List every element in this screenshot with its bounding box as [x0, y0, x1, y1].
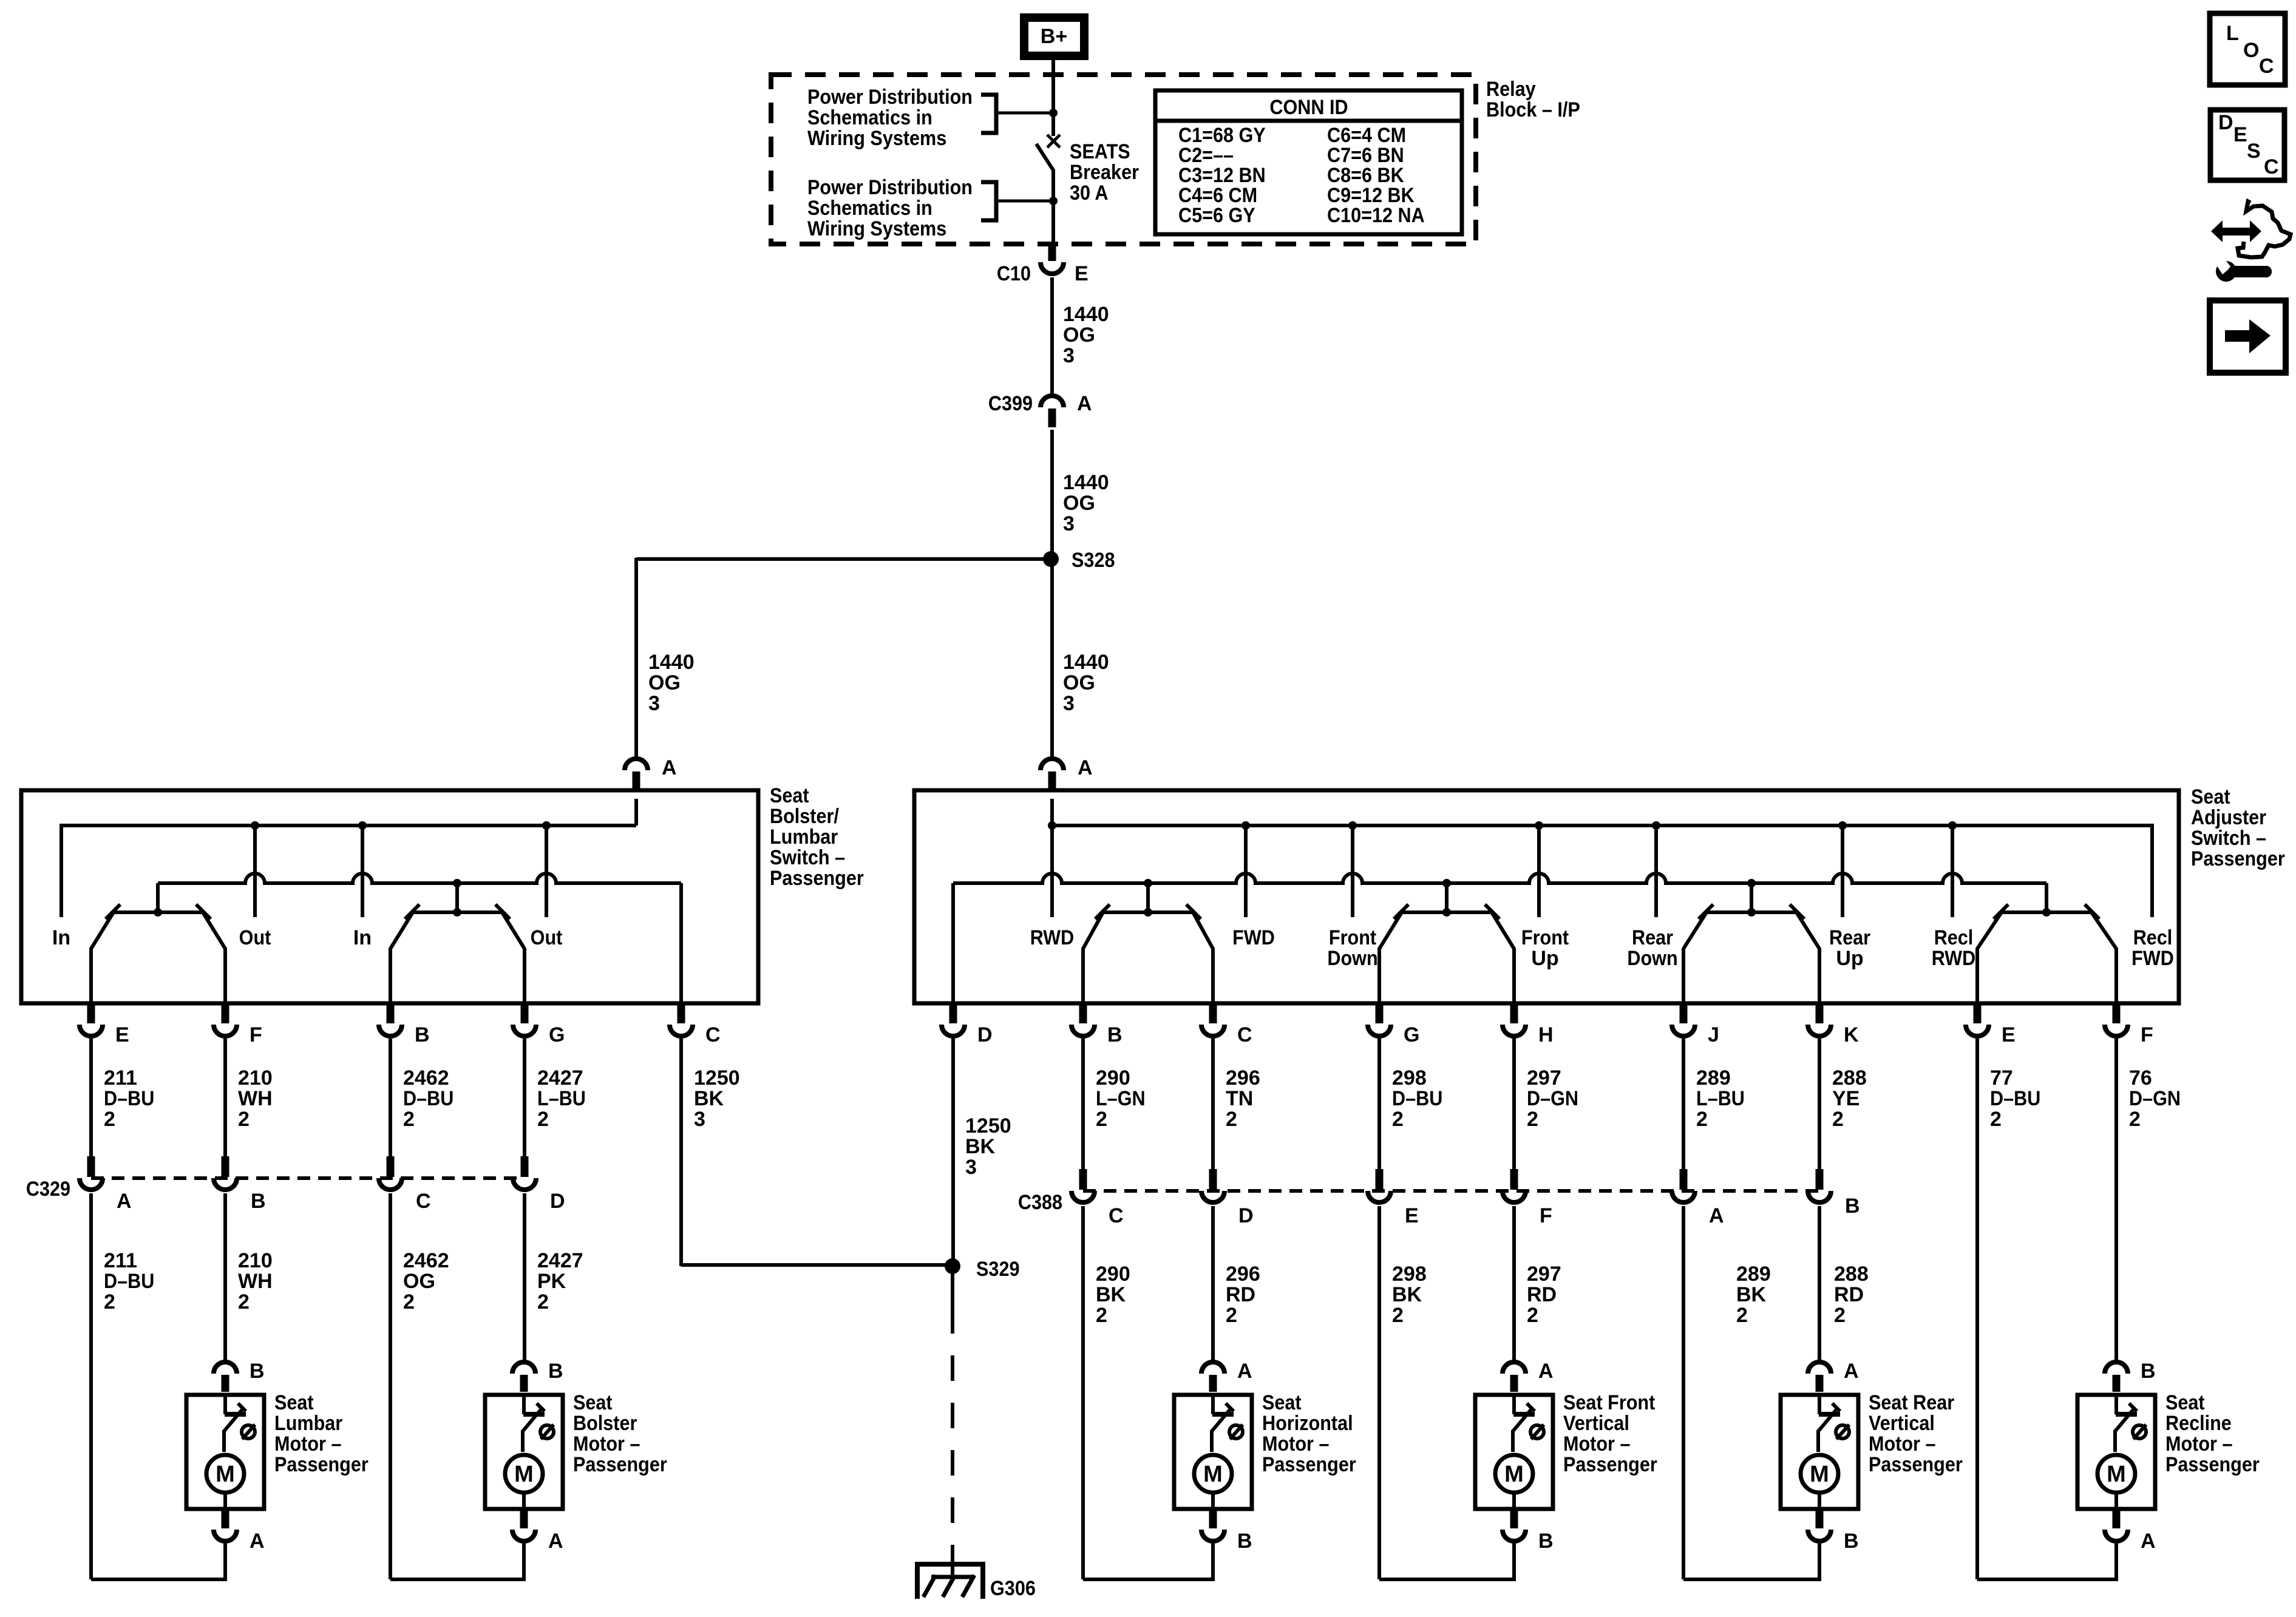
svg-text:2: 2	[1696, 1108, 1708, 1131]
connector motor pin B (seat rear vertical motor)	[1808, 1509, 1859, 1553]
junction dot upper branch	[1049, 109, 1058, 117]
svg-text:B: B	[1845, 1195, 1860, 1218]
connector motor pin A (seat lumbar motor)	[214, 1509, 265, 1553]
circuit breaker SEATS 30A	[1036, 135, 1060, 245]
svg-text:290: 290	[1096, 1263, 1130, 1286]
svg-text:OG: OG	[648, 671, 681, 694]
svg-text:RWD: RWD	[1030, 926, 1075, 949]
svg-text:Lumbar: Lumbar	[770, 825, 838, 849]
wire 288 YE (pin K)	[1818, 1039, 1821, 1170]
wire 297 D-GN (pin H)	[1512, 1039, 1516, 1170]
svg-text:G306: G306	[990, 1577, 1036, 1600]
svg-text:Motor –: Motor –	[573, 1432, 640, 1456]
wire contact Recl RWD	[1951, 825, 1954, 917]
svg-text:A: A	[250, 1530, 265, 1553]
contact tick left (lumbar)	[405, 904, 419, 919]
svg-text:210: 210	[238, 1066, 273, 1090]
label 296 RD 2	[1226, 1263, 1260, 1327]
seat lumbar motor thermal breaker	[224, 1395, 246, 1452]
svg-text:SEATS: SEATS	[1070, 140, 1130, 163]
svg-text:Lumbar: Lumbar	[274, 1412, 342, 1435]
switch blade right (recline)	[2091, 912, 2116, 1005]
svg-text:RD: RD	[1527, 1283, 1557, 1306]
label Recl FWD	[2131, 926, 2174, 970]
label 77 D-BU 2	[1990, 1066, 2040, 1131]
wire contact Front Up	[1537, 825, 1541, 917]
svg-text:Down: Down	[1327, 947, 1377, 970]
svg-text:L–BU: L–BU	[537, 1087, 586, 1110]
wire 2462 D-BU (pin B)	[389, 1039, 392, 1158]
svg-text:PK: PK	[537, 1270, 566, 1293]
label Power Distribution Schematics in Wiring Systems (lower)	[807, 176, 973, 240]
svg-text:M: M	[216, 1462, 235, 1487]
svg-text:D–GN: D–GN	[1527, 1087, 1578, 1110]
label SEATS Breaker 30 A	[1070, 140, 1139, 205]
connector C329 pin D	[513, 1156, 565, 1213]
svg-text:Wiring Systems: Wiring Systems	[807, 217, 946, 240]
junction dot bus1 In(2)	[358, 821, 367, 830]
switch blade bar (horizontal)	[1103, 879, 1193, 917]
switch blade to pin F	[203, 912, 225, 1005]
label 298 BK 2	[1392, 1263, 1427, 1327]
label 210 WH 2 (lower)	[238, 1249, 273, 1314]
wire 1440 OG 3 (C10 to C399)	[1050, 277, 1054, 396]
contact tick right (front vertical)	[1485, 904, 1500, 919]
contact tick right (recline)	[2085, 904, 2099, 919]
svg-text:Seat: Seat	[1262, 1391, 1302, 1414]
svg-text:YE: YE	[1832, 1087, 1860, 1110]
junction dot lower branch	[1049, 197, 1058, 205]
wire feed into right box	[1050, 799, 1054, 825]
svg-text:B: B	[1538, 1530, 1554, 1553]
label 210 WH 2	[238, 1066, 273, 1131]
junction dot bus1 Recl RWD	[1948, 821, 1957, 830]
svg-text:B: B	[250, 1360, 265, 1383]
svg-text:D–BU: D–BU	[403, 1087, 453, 1110]
seat rear vertical motor box	[1781, 1395, 1858, 1509]
switch blade bar (rear vertical)	[1707, 879, 1796, 917]
connector pin K (right box)	[1808, 1005, 1859, 1046]
label 1440 OG 3 (second)	[1063, 471, 1109, 535]
wire relay block feed	[1051, 76, 1055, 136]
connector C388 pin A	[1672, 1169, 1724, 1227]
connector C10 pin E	[1041, 245, 1064, 274]
svg-text:296: 296	[1226, 1066, 1260, 1090]
svg-text:C: C	[1109, 1204, 1124, 1227]
svg-text:M: M	[1203, 1462, 1223, 1487]
svg-text:C: C	[2264, 155, 2279, 178]
seat recline motor box	[2077, 1395, 2155, 1509]
svg-text:D–BU: D–BU	[1990, 1087, 2040, 1110]
svg-text:Bolster/: Bolster/	[770, 805, 839, 828]
svg-text:2: 2	[2129, 1108, 2141, 1131]
svg-text:3: 3	[1063, 692, 1075, 715]
seat recline motor label	[2165, 1391, 2260, 1476]
wire 1250 BK (pin D)	[951, 1039, 955, 1266]
seat horizontal motor thermal symbol	[1229, 1425, 1243, 1439]
wire ground bus to pin D	[951, 883, 955, 1005]
svg-text:E: E	[1405, 1204, 1419, 1227]
svg-text:M: M	[1810, 1462, 1829, 1487]
svg-text:Power Distribution: Power Distribution	[807, 176, 973, 199]
svg-text:Passenger: Passenger	[274, 1453, 369, 1476]
svg-text:Horizontal: Horizontal	[1262, 1412, 1353, 1435]
svg-text:2: 2	[1096, 1304, 1107, 1327]
svg-text:2: 2	[403, 1108, 415, 1131]
svg-text:B: B	[2141, 1360, 2156, 1383]
wire 297 RD (C388 F)	[1512, 1206, 1516, 1362]
wire S328 to left branch	[636, 557, 1051, 561]
svg-text:Seat: Seat	[770, 784, 809, 807]
switch blade bar (bolster)	[114, 883, 203, 917]
svg-text:C10=12 NA: C10=12 NA	[1327, 204, 1425, 227]
left box feed bus	[61, 825, 636, 917]
connector C329 pin A	[80, 1156, 132, 1213]
wire 1250 BK to S329	[681, 1263, 953, 1267]
svg-text:2: 2	[537, 1108, 549, 1131]
label S328	[1072, 549, 1115, 572]
connector C388 pin F	[1503, 1169, 1552, 1227]
seat lumbar motor motor M	[206, 1455, 244, 1509]
svg-text:A: A	[1844, 1360, 1859, 1383]
label C388	[1018, 1191, 1062, 1214]
wire motor loop front vertical	[1379, 1544, 1514, 1579]
junction dot bus1 Front Down	[1348, 821, 1357, 830]
svg-text:E: E	[2002, 1023, 2016, 1046]
svg-text:H: H	[1538, 1023, 1554, 1046]
svg-text:B+: B+	[1041, 25, 1067, 48]
label FWD	[1232, 926, 1275, 949]
connector motor pin A (seat front vertical motor)	[1503, 1360, 1554, 1392]
svg-text:E: E	[115, 1023, 129, 1046]
svg-text:2: 2	[1226, 1304, 1237, 1327]
contact tick left (recline)	[1994, 904, 2008, 919]
svg-text:In: In	[52, 926, 70, 949]
power feed B+	[1020, 13, 1089, 60]
seat bolster motor label	[573, 1391, 667, 1476]
icon wrench	[2214, 255, 2272, 282]
connector motor pin B (seat front vertical motor)	[1503, 1509, 1554, 1553]
svg-text:1440: 1440	[1063, 651, 1109, 674]
connector pin F (left box)	[214, 1005, 262, 1046]
svg-text:Recl: Recl	[1934, 926, 1974, 949]
svg-text:C5=6 GY: C5=6 GY	[1178, 204, 1255, 227]
wire motor loop lumbar	[91, 1544, 225, 1579]
label Seat Adjuster Switch - Passenger	[2191, 785, 2285, 870]
connector C388 pin D	[1201, 1169, 1254, 1227]
switch blade left (front vertical)	[1379, 912, 1402, 1005]
svg-text:D–BU: D–BU	[104, 1270, 154, 1293]
wire contact Rear Down	[1654, 825, 1658, 917]
wire 298 D-BU (pin G)	[1377, 1039, 1381, 1170]
svg-text:G: G	[549, 1023, 565, 1046]
wire 296 TN (pin C)	[1211, 1039, 1215, 1170]
svg-text:B: B	[251, 1190, 266, 1213]
connector C388 pin B	[1808, 1169, 1860, 1218]
svg-text:2: 2	[1226, 1108, 1237, 1131]
label 2462 OG 2	[403, 1249, 449, 1314]
label C399	[988, 392, 1033, 415]
label Relay Block - I/P	[1486, 78, 1580, 121]
svg-text:Block – I/P: Block – I/P	[1486, 98, 1580, 121]
svg-text:F: F	[1540, 1204, 1552, 1227]
switch blade to pin B	[390, 912, 413, 1005]
label RWD	[1030, 926, 1075, 949]
svg-text:RD: RD	[1834, 1283, 1864, 1306]
svg-text:A: A	[117, 1190, 132, 1213]
label Front Up	[1521, 926, 1569, 970]
svg-text:L–GN: L–GN	[1096, 1087, 1146, 1110]
svg-text:In: In	[353, 926, 372, 949]
seat bolster motor box	[485, 1395, 563, 1509]
connector pin F (right box)	[2105, 1005, 2153, 1046]
svg-text:BK: BK	[694, 1087, 724, 1110]
label A (left switch feed)	[662, 756, 677, 779]
connector pin G (right box)	[1368, 1005, 1419, 1046]
wire contact Out(2)	[545, 825, 548, 917]
connector pin B (right box)	[1072, 1005, 1123, 1046]
svg-text:C329: C329	[26, 1178, 70, 1201]
label 2427 L-BU 2	[537, 1066, 586, 1131]
seat horizontal motor label	[1262, 1391, 1356, 1476]
wire B+ to relay block	[1051, 60, 1055, 76]
svg-text:2462: 2462	[403, 1066, 449, 1090]
seat adjuster switch box	[914, 790, 2179, 1003]
svg-text:S329: S329	[976, 1258, 1020, 1281]
svg-text:C: C	[416, 1190, 431, 1213]
svg-text:Seat: Seat	[274, 1391, 314, 1414]
svg-text:J: J	[1708, 1023, 1719, 1046]
switch blade to pin E	[91, 912, 114, 1005]
svg-text:B: B	[1844, 1530, 1859, 1553]
svg-text:2462: 2462	[403, 1249, 449, 1272]
svg-text:289: 289	[1696, 1066, 1731, 1090]
wire 210 WH (C329 B)	[223, 1193, 227, 1362]
contact tick left (front vertical)	[1394, 904, 1408, 919]
svg-text:Seat: Seat	[2191, 785, 2230, 808]
switch blade left (recline)	[1977, 912, 2002, 1005]
svg-text:297: 297	[1527, 1066, 1561, 1090]
svg-text:288: 288	[1834, 1263, 1869, 1286]
label 211 D-BU 2	[104, 1066, 154, 1131]
svg-text:Switch –: Switch –	[770, 846, 845, 869]
svg-text:Wiring Systems: Wiring Systems	[807, 127, 946, 150]
switch blade right (front vertical)	[1492, 912, 1514, 1005]
switch blade right (rear vertical)	[1796, 912, 1819, 1005]
label C10	[997, 262, 1031, 285]
label In (2)	[353, 926, 372, 949]
svg-text:OG: OG	[403, 1270, 435, 1293]
wire feed into left box	[634, 799, 638, 825]
wire 290 BK (C388 C)	[1081, 1206, 1085, 1579]
svg-text:C388: C388	[1018, 1191, 1062, 1214]
svg-text:E: E	[2233, 123, 2247, 146]
connector pin B (left box)	[379, 1005, 430, 1046]
icon next-page arrow box	[2210, 300, 2286, 373]
label 290 L-GN 2	[1096, 1066, 1146, 1131]
junction dot bus1 Front Up	[1535, 821, 1543, 830]
svg-text:298: 298	[1392, 1263, 1427, 1286]
wire S329 to ground dashed	[951, 1308, 954, 1562]
svg-text:Recl: Recl	[2133, 926, 2173, 949]
svg-text:2: 2	[1736, 1304, 1748, 1327]
left box ground bus with crossovers	[158, 873, 681, 883]
label 296 TN 2	[1226, 1066, 1260, 1131]
svg-text:Motor –: Motor –	[274, 1432, 342, 1456]
svg-text:WH: WH	[238, 1087, 273, 1110]
svg-text:OG: OG	[1063, 492, 1095, 515]
connector motor pin A (seat recline motor)	[2105, 1509, 2156, 1553]
svg-text:B: B	[1107, 1023, 1123, 1046]
svg-text:288: 288	[1832, 1066, 1867, 1090]
switch blade left (horizontal)	[1083, 912, 1103, 1005]
label G306	[990, 1577, 1036, 1600]
svg-text:A: A	[548, 1530, 563, 1553]
label Out (2)	[531, 926, 563, 949]
svg-text:3: 3	[694, 1108, 705, 1131]
label Rear Up	[1829, 926, 1870, 970]
svg-text:296: 296	[1226, 1263, 1260, 1286]
wire 1250 BK (pin C)	[679, 1039, 683, 1266]
svg-text:B: B	[1237, 1530, 1252, 1553]
contact tick right (rear vertical)	[1790, 904, 1804, 919]
wire 211 D-BU (pin E)	[89, 1039, 93, 1158]
svg-text:210: 210	[238, 1249, 273, 1272]
svg-text:2: 2	[238, 1108, 250, 1131]
wire 2427 L-BU (pin G)	[523, 1039, 526, 1158]
connector pin E (left box)	[80, 1005, 129, 1046]
svg-text:Out: Out	[531, 926, 563, 949]
contact tick right (horizontal)	[1186, 904, 1201, 919]
connector C329 pin C	[379, 1156, 431, 1213]
svg-text:Recline: Recline	[2165, 1412, 2232, 1435]
connector pin C (left box)	[670, 1005, 721, 1046]
seat front vertical motor box	[1475, 1395, 1553, 1509]
junction dot bus1 Rear Down	[1652, 821, 1660, 830]
svg-text:CONN ID: CONN ID	[1269, 96, 1348, 119]
svg-text:Up: Up	[1836, 947, 1863, 970]
svg-text:C: C	[2259, 55, 2274, 78]
wire motor loop bolster	[390, 1544, 524, 1579]
label Rear Down	[1627, 926, 1677, 970]
seat recline motor thermal symbol	[2133, 1425, 2146, 1439]
junction dot bus1 Out(2)	[542, 821, 551, 830]
off-page bracket upper	[981, 95, 996, 133]
connector motor pin B (seat horizontal motor)	[1201, 1509, 1252, 1553]
svg-text:BK: BK	[1096, 1283, 1126, 1306]
svg-text:2: 2	[104, 1108, 115, 1131]
svg-text:D: D	[1238, 1204, 1254, 1227]
label Seat Bolster/Lumbar Switch - Passenger	[770, 784, 864, 890]
right box ground bus with crossovers	[953, 873, 2046, 883]
svg-text:C: C	[705, 1023, 721, 1046]
wire motor loop horizontal	[1083, 1544, 1213, 1579]
svg-text:RWD: RWD	[1932, 947, 1976, 970]
svg-text:Seat Rear: Seat Rear	[1869, 1391, 1954, 1414]
connector motor pin B (seat lumbar motor)	[214, 1360, 265, 1392]
svg-text:Bolster: Bolster	[573, 1412, 637, 1435]
junction dot bus1 Rear Up	[1838, 821, 1847, 830]
svg-text:D: D	[550, 1190, 565, 1213]
label 76 D-GN 2	[2129, 1066, 2181, 1131]
svg-text:298: 298	[1392, 1066, 1427, 1090]
svg-text:D: D	[2218, 111, 2233, 134]
svg-text:FWD: FWD	[1232, 926, 1275, 949]
splice S329	[945, 1258, 960, 1274]
svg-text:Relay: Relay	[1486, 78, 1536, 101]
wire 76 D-GN (pin F)	[2114, 1039, 2118, 1362]
svg-text:Passenger: Passenger	[1262, 1453, 1356, 1476]
label 288 YE 2	[1832, 1066, 1867, 1131]
junction dot bus1 feed	[1048, 821, 1056, 830]
label 2462 D-BU 2	[403, 1066, 453, 1131]
svg-text:B: B	[548, 1360, 563, 1383]
seat rear vertical motor thermal breaker	[1818, 1395, 1840, 1452]
svg-text:RD: RD	[1226, 1283, 1255, 1306]
svg-text:Motor –: Motor –	[1869, 1432, 1936, 1456]
label 289 BK 2	[1736, 1263, 1771, 1327]
svg-text:A: A	[1077, 392, 1092, 415]
label 1250 BK 3 (right)	[965, 1114, 1011, 1179]
CONN ID column 2	[1327, 124, 1425, 227]
wire ground bus corner to recl switch	[2045, 883, 2048, 912]
contact tick right (lumbar)	[495, 904, 510, 919]
label Out (1)	[239, 926, 271, 949]
svg-text:Seat: Seat	[2165, 1391, 2205, 1414]
wire ground bus to pin C	[679, 883, 683, 1005]
svg-text:2: 2	[1832, 1108, 1844, 1131]
svg-text:Passenger: Passenger	[1869, 1453, 1963, 1476]
connector motor pin B (seat recline motor)	[2105, 1360, 2156, 1392]
svg-text:Breaker: Breaker	[1070, 161, 1139, 184]
svg-text:D–GN: D–GN	[2129, 1087, 2181, 1110]
label 298 D-BU 2	[1392, 1066, 1442, 1131]
seat rear vertical motor label	[1869, 1391, 1963, 1476]
wire 288 RD (C388 B)	[1818, 1206, 1821, 1362]
svg-text:B: B	[415, 1023, 430, 1046]
svg-text:BK: BK	[1392, 1283, 1422, 1306]
connector pin D (right box)	[942, 1005, 993, 1046]
label 297 D-GN 2	[1527, 1066, 1578, 1131]
svg-text:F: F	[2141, 1023, 2153, 1046]
svg-text:C: C	[1237, 1023, 1252, 1046]
connector motor pin A (seat rear vertical motor)	[1808, 1360, 1859, 1392]
connector pin E (right box)	[1966, 1005, 2016, 1046]
wire lower branch to breaker	[996, 200, 1053, 203]
svg-text:G: G	[1404, 1023, 1419, 1046]
svg-text:Rear: Rear	[1632, 926, 1673, 949]
svg-text:211: 211	[104, 1066, 137, 1090]
svg-text:Motor –: Motor –	[1262, 1432, 1330, 1456]
svg-text:Seat Front: Seat Front	[1563, 1391, 1655, 1414]
connector motor pin A (seat bolster motor)	[512, 1509, 563, 1553]
svg-text:A: A	[1237, 1360, 1252, 1383]
wire contact RWD	[1050, 825, 1054, 917]
svg-text:2: 2	[403, 1290, 415, 1314]
svg-text:BK: BK	[1736, 1283, 1767, 1306]
connector pin G (left box)	[513, 1005, 565, 1046]
label 1440 OG 3 (right branch)	[1063, 651, 1109, 715]
svg-text:3: 3	[648, 692, 660, 715]
svg-text:OG: OG	[1063, 324, 1095, 347]
wire 210 WH (pin F)	[223, 1039, 227, 1158]
svg-text:297: 297	[1527, 1263, 1561, 1286]
contact tick left (bolster)	[106, 904, 120, 919]
icon DESC box	[2210, 110, 2284, 180]
contact tick left (horizontal)	[1095, 904, 1110, 919]
svg-text:Switch –: Switch –	[2191, 827, 2266, 850]
svg-text:2: 2	[537, 1290, 549, 1314]
